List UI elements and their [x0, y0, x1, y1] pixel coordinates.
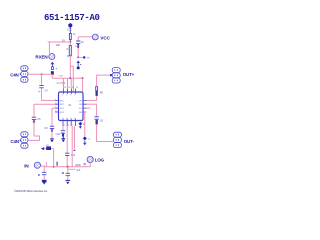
- wire C4N to pulldown: [28, 73, 52, 75]
- svg-text:C11: C11: [71, 154, 76, 157]
- resistor R2: [67, 46, 72, 56]
- wire C4 to pin 1: [42, 88, 56, 100]
- capacitor C5: [32, 117, 41, 123]
- wire bottom pin x71.2 long: [71, 126, 73, 167]
- svg-text:RSSI: RSSI: [75, 165, 81, 167]
- gnd rail above IC: [52, 75, 82, 79]
- wire column between: [96, 104, 98, 116]
- wire stub right: [78, 56, 83, 58]
- junction: [67, 166, 69, 168]
- ground C12: [42, 180, 47, 185]
- wire junction down: [69, 42, 71, 46]
- capacitor C13: [66, 169, 81, 175]
- node RXEN: [35, 54, 54, 60]
- svg-text:3: 3: [55, 107, 56, 109]
- capacitor C12: [42, 172, 46, 174]
- wire L1 to junction: [69, 40, 71, 43]
- svg-text:OUT-: OUT-: [124, 139, 135, 144]
- wire C11 to rail: [66, 156, 68, 167]
- junction: [53, 166, 55, 168]
- svg-text:1: 1: [62, 95, 63, 97]
- junction: [77, 57, 79, 59]
- ground arrow C8: [50, 140, 54, 143]
- pin arrow: [60, 83, 65, 85]
- wire bridge to IC top: [70, 66, 73, 91]
- wire C5 to C4N bottom: [29, 120, 40, 140]
- junction: [69, 77, 71, 79]
- svg-text:13: 13: [76, 87, 78, 89]
- capacitor C2 column: [77, 37, 79, 40]
- wire column x41.5 down: [41, 74, 43, 85]
- node C4N top: [10, 66, 28, 82]
- wire pin2 left: [34, 103, 55, 105]
- svg-text:OUT+: OUT+: [123, 72, 135, 77]
- capacitor C11: [65, 153, 76, 157]
- wire column x34: [33, 104, 35, 116]
- ground arrow right side: [83, 136, 91, 145]
- svg-text:LOG: LOG: [95, 158, 105, 163]
- svg-text:2: 2: [66, 95, 67, 97]
- wire rail2: [44, 166, 90, 168]
- wire pin right y100 to OUT+ branch: [87, 96, 97, 100]
- svg-text:G: G: [88, 139, 90, 141]
- svg-text:3: 3: [70, 95, 71, 97]
- svg-text:4: 4: [74, 95, 75, 97]
- wire RXEN riser: [48, 42, 71, 53]
- resistor R3 pulldown: [51, 62, 57, 75]
- wire bottom pin x67.2 long: [66, 126, 68, 153]
- svg-text:1nF: 1nF: [76, 170, 81, 172]
- wire C13 down: [67, 176, 69, 180]
- svg-text:1uF: 1uF: [75, 46, 80, 48]
- wire C2 down: [77, 48, 79, 58]
- junction: [41, 73, 43, 75]
- svg-text:C10: C10: [56, 133, 61, 136]
- svg-text:651-1157-A0: 651-1157-A0: [44, 13, 100, 23]
- wire column x52: [51, 108, 53, 126]
- ground arrow under C2: [76, 60, 81, 69]
- pin stubs left: [55, 100, 59, 112]
- tick marks: [38, 174, 40, 175]
- svg-text:10K: 10K: [56, 44, 61, 47]
- capacitor C6: [94, 117, 103, 125]
- wire bottom pin x75.4: [73, 126, 75, 150]
- wire IN cap chain: [43, 167, 45, 172]
- capacitor C9 arrow feed: [41, 145, 54, 150]
- svg-text:1: 1: [55, 99, 56, 101]
- IC U1: [59, 92, 84, 121]
- wire C8 down: [51, 129, 53, 139]
- wire bottom pin x63: [62, 126, 64, 130]
- wire C12 down: [43, 175, 45, 180]
- pin stubs inner: [63, 92, 76, 121]
- tick marks: [84, 164, 86, 165]
- svg-text:2: 2: [55, 103, 56, 105]
- junction: [69, 41, 71, 43]
- svg-text:RXEN: RXEN: [35, 55, 48, 60]
- junction: [82, 77, 84, 79]
- ground arrow C10: [62, 139, 66, 142]
- ground diamond below IC: [79, 122, 85, 129]
- tick navy: [57, 162, 58, 166]
- node OUT-: [113, 132, 134, 147]
- resistor R5: [96, 87, 104, 96]
- node C4N bottom: [11, 132, 29, 148]
- svg-text:C4N: C4N: [10, 73, 18, 78]
- wire drop to pin: [67, 78, 69, 88]
- node tap dot: [83, 56, 86, 59]
- svg-text:GND: GND: [56, 83, 61, 85]
- ground C13: [66, 180, 71, 184]
- node LOG: [87, 156, 104, 162]
- wire pin3 left: [52, 107, 55, 109]
- wire pin right y112 to gnd: [85, 112, 87, 136]
- svg-text:VCC: VCC: [100, 36, 110, 41]
- wire VCC feed: [78, 36, 92, 38]
- capacitor C4: [38, 85, 48, 93]
- svg-text:5: 5: [64, 124, 65, 126]
- wire rail end down to IC: [82, 78, 84, 91]
- node VCC: [92, 34, 110, 41]
- svg-text:16: 16: [64, 87, 66, 89]
- wire pin right y108 stub: [87, 107, 91, 109]
- node OUT+: [112, 68, 134, 83]
- power flag: [68, 23, 72, 27]
- wire C6 to OUT-: [97, 124, 113, 141]
- svg-text:6: 6: [68, 124, 69, 126]
- wire pin right y104: [87, 103, 97, 105]
- riser tick: [45, 162, 47, 167]
- svg-text:C4N: C4N: [11, 139, 19, 144]
- wire flag stem: [69, 28, 71, 34]
- svg-text:4: 4: [55, 110, 56, 112]
- svg-text:14: 14: [72, 87, 74, 89]
- wire LOG to rail2: [89, 163, 91, 167]
- wire tip: [110, 74, 112, 76]
- wire drop to pin b: [70, 78, 72, 88]
- wire R2 down to gnd rail: [69, 56, 71, 78]
- svg-text:©2015 RF Micro Devices Inc.: ©2015 RF Micro Devices Inc.: [14, 189, 48, 193]
- pin stubs bottom: [63, 121, 75, 127]
- tick marks: [62, 172, 64, 173]
- node IN: [24, 162, 40, 169]
- capacitor C8: [45, 126, 55, 132]
- pin stubs right: [83, 100, 87, 112]
- svg-text:15: 15: [68, 87, 70, 89]
- junction: [51, 74, 53, 76]
- wire IN to rail2: [41, 165, 45, 168]
- svg-text:VDD: VDD: [59, 76, 64, 78]
- svg-text:VCC: VCC: [67, 29, 72, 32]
- wire C9 column to rail2: [53, 149, 55, 167]
- wire drop to pin c: [63, 78, 65, 88]
- pin stubs top: [64, 89, 76, 93]
- wire below-rail chain: [67, 167, 69, 173]
- capacitor C10: [56, 131, 66, 137]
- capacitor C2: [75, 41, 84, 48]
- inductor L1: [69, 33, 76, 39]
- wire R5 up to OUT+: [97, 75, 110, 87]
